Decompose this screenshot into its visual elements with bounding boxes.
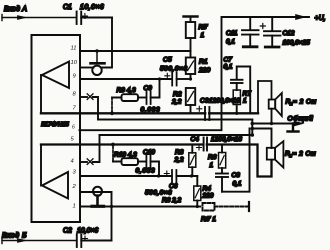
capacitor C12 electrolytic	[260, 17, 280, 47]
node dot C10 tap	[157, 174, 160, 177]
svg-text:10,0×6: 10,0×6	[77, 228, 98, 235]
resistor R9	[112, 94, 146, 112]
IC box K174UN15	[32, 35, 81, 222]
wire pin 8 riser	[93, 97, 98, 120]
svg-text:1200,0×16: 1200,0×16	[211, 136, 242, 143]
node input A terminal	[1, 15, 3, 21]
node dot speaker1 return	[270, 122, 273, 125]
capacitor C10	[146, 155, 159, 176]
svg-text:9: 9	[73, 74, 77, 80]
svg-text:R6' 1: R6' 1	[201, 216, 216, 223]
op-amp B triangle	[42, 172, 68, 199]
svg-text:0,1: 0,1	[233, 181, 242, 188]
node X mark pin4	[87, 159, 93, 165]
wire input A	[2, 17, 76, 19]
wire pin 8 common line	[98, 119, 252, 121]
capacitor C3 in output A	[197, 106, 210, 120]
svg-text:5: 5	[71, 137, 75, 143]
svg-text:500,0×6: 500,0×6	[145, 190, 172, 197]
svg-text:0,033: 0,033	[136, 168, 156, 175]
wire output A bus	[41, 112, 258, 114]
wire pin 10 line	[80, 67, 94, 69]
resistor R2	[186, 88, 195, 113]
capacitor C1	[77, 12, 88, 25]
capacitor C7	[231, 80, 243, 83]
wire C2 to riser	[81, 240, 111, 242]
wire pin4 common line	[100, 134, 253, 136]
node dot R1 R2 C5 junction	[189, 77, 192, 80]
svg-text:100,0×25: 100,0×25	[283, 40, 311, 47]
svg-text:0,033: 0,033	[141, 107, 161, 114]
svg-text:2,2: 2,2	[174, 157, 184, 164]
resistor R4	[194, 176, 201, 207]
svg-text:= 2 Ом: = 2 Ом	[293, 151, 317, 158]
wire input B riser	[111, 192, 113, 241]
wire pin 1 line	[80, 206, 197, 208]
svg-text:8: 8	[73, 92, 77, 98]
node +U arrow	[296, 14, 306, 19]
node dot R7 output	[235, 112, 238, 115]
wire pin 4 riser	[93, 135, 100, 162]
capacitor C9	[147, 79, 160, 104]
capacitor C6	[164, 170, 176, 183]
svg-text:C12: C12	[283, 30, 295, 37]
svg-text:6: 6	[72, 125, 75, 131]
resistor R10	[113, 146, 146, 165]
wire common column	[251, 120, 253, 136]
svg-text:R7: R7	[243, 91, 252, 98]
wire output B bus after C4	[207, 145, 272, 177]
svg-text:2,2: 2,2	[171, 99, 182, 106]
svg-text:220: 220	[198, 67, 210, 74]
node R6' terminal	[248, 202, 250, 211]
node dot riser junction	[110, 205, 113, 208]
node dot R3 bottom	[190, 174, 193, 177]
wire pin 4 stub	[80, 161, 87, 163]
svg-text:1: 1	[210, 162, 214, 169]
svg-text:Вход А: Вход А	[4, 5, 27, 13]
ground symbol obshchiy	[288, 124, 299, 132]
svg-text:C11: C11	[226, 30, 238, 37]
svg-text:4: 4	[71, 159, 74, 165]
wire speaker2 top feed	[252, 129, 271, 149]
svg-text:R4: R4	[203, 186, 212, 193]
wire op-amp A tip to pin7	[41, 75, 42, 113]
svg-text:R2: R2	[173, 91, 182, 98]
capacitor C11	[242, 17, 259, 47]
node obshchiy arrow	[294, 121, 304, 126]
svg-text:R3: R3	[175, 149, 184, 156]
svg-text:C10: C10	[143, 149, 155, 156]
svg-text:= 2 Ом: = 2 Ом	[293, 99, 317, 106]
wire pin 8 stub	[80, 96, 87, 98]
svg-text:1200,0×16: 1200,0×16	[209, 98, 240, 105]
svg-text:7: 7	[73, 106, 77, 112]
loudspeaker BA2	[267, 141, 284, 167]
node input B terminal	[1, 238, 3, 244]
node input B arrow	[18, 239, 27, 243]
svg-text:220: 220	[202, 193, 214, 200]
svg-text:2: 2	[72, 184, 77, 190]
node dot R4 bottom	[196, 205, 199, 208]
svg-text:1: 1	[201, 32, 205, 39]
svg-text:C9: C9	[144, 85, 153, 92]
ground bar under C14	[92, 205, 104, 208]
svg-text:3: 3	[73, 170, 77, 176]
svg-text:C7: C7	[224, 57, 233, 64]
node dot C9 tap	[158, 77, 161, 80]
wire pin 11 line	[80, 50, 191, 52]
resistor R1	[186, 51, 195, 79]
wire riser to pin10	[103, 18, 113, 68]
svg-text:11: 11	[71, 46, 77, 52]
svg-text:R1: R1	[199, 59, 208, 66]
capacitor C13 electrolytic (plate+cup)	[91, 51, 105, 75]
wire op-amp B tip to pin5	[41, 145, 42, 186]
wire C14 stem to common	[96, 196, 99, 205]
svg-text:R6: R6	[208, 154, 217, 161]
node dot R9 link	[110, 111, 114, 115]
wire Zobel B return	[222, 129, 250, 192]
svg-text:C8: C8	[232, 172, 241, 179]
resistor R6	[219, 145, 226, 173]
svg-text:C3: C3	[200, 98, 209, 105]
svg-text:10,0×6: 10,0×6	[80, 4, 104, 11]
node dot R10 link	[111, 143, 115, 147]
capacitor C2	[77, 235, 88, 248]
op-amp A triangle	[42, 62, 69, 89]
svg-text:C2: C2	[63, 228, 72, 235]
svg-text:Общий: Общий	[288, 115, 314, 123]
svg-text:0,1: 0,1	[224, 64, 233, 71]
wire +U rail / pin6 feed	[80, 17, 310, 130]
loudspeaker BA1	[269, 93, 282, 116]
svg-text:1: 1	[243, 98, 247, 105]
resistor R6' optional dashed	[197, 203, 248, 211]
svg-text:1: 1	[73, 204, 76, 210]
node dot common 3	[251, 133, 255, 137]
svg-text:500,0×6: 500,0×6	[160, 66, 188, 73]
node X mark pin8	[87, 94, 93, 100]
wire pin 9 line	[80, 78, 172, 80]
resistor R7	[233, 83, 240, 113]
svg-text:R3 2,2: R3 2,2	[162, 197, 182, 204]
svg-text:C4: C4	[191, 136, 200, 143]
svg-text:C5: C5	[163, 57, 172, 64]
capacitor C4 in output B	[197, 138, 208, 151]
svg-text:К174УН15: К174УН15	[41, 122, 69, 128]
svg-text:10: 10	[71, 60, 78, 66]
wire pin 2 line	[80, 191, 112, 193]
svg-text:R10 4,3: R10 4,3	[114, 152, 137, 159]
wire output B bus	[41, 143, 203, 145]
capacitor C14 electrolytic ring	[93, 187, 102, 196]
svg-text:C1: C1	[63, 4, 72, 11]
wire obshchiy line	[252, 123, 298, 125]
node input A arrow	[18, 16, 27, 20]
svg-text:Вход Б: Вход Б	[2, 232, 27, 240]
wire speaker1 return	[271, 109, 273, 124]
capacitor C5	[165, 73, 191, 86]
wire C1 to riser	[81, 17, 112, 19]
resistor R5'	[184, 17, 198, 52]
svg-text:+U,: +U,	[315, 15, 326, 22]
node junction dot pin11/C13	[95, 49, 98, 52]
node dot common 2	[251, 127, 255, 131]
wire Zobel A vertical frame	[237, 67, 251, 114]
wire pin 3 line	[80, 175, 197, 177]
wire input B	[2, 240, 76, 242]
capacitor C8	[216, 174, 228, 192]
wire speaker1 top feed	[258, 81, 272, 113]
svg-text:0,1: 0,1	[226, 39, 235, 46]
resistor R3	[189, 145, 196, 177]
svg-text:R9 4,3: R9 4,3	[117, 87, 137, 94]
svg-text:R5': R5'	[199, 24, 209, 31]
node dot common 1	[251, 122, 255, 126]
